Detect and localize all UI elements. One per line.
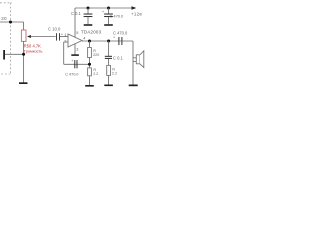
svg-text:C 470.0: C 470.0: [65, 71, 79, 76]
svg-text:5: 5: [76, 31, 78, 35]
svg-text:2.2: 2.2: [112, 72, 117, 76]
svg-text:R: R: [112, 67, 115, 71]
svg-text:220: 220: [93, 53, 99, 57]
svg-text:+: +: [113, 36, 115, 40]
svg-text:+: +: [61, 33, 63, 37]
svg-text:3: 3: [76, 47, 78, 51]
svg-text:C 10.0: C 10.0: [48, 27, 61, 32]
svg-text:2: 2: [64, 39, 66, 43]
svg-text:C 0.1: C 0.1: [113, 56, 124, 61]
svg-text:C 470.0: C 470.0: [113, 30, 128, 35]
svg-text:+12в: +12в: [131, 11, 142, 16]
svg-text:+: +: [71, 59, 73, 63]
svg-text:Громкость: Громкость: [24, 49, 43, 54]
svg-text:+: +: [102, 10, 104, 14]
svg-text:C 470.0: C 470.0: [110, 13, 124, 18]
svg-text:1: 1: [64, 33, 66, 37]
svg-text:20: 20: [1, 16, 7, 21]
svg-text:TDA2003: TDA2003: [81, 30, 102, 35]
svg-text:2.2: 2.2: [93, 72, 98, 76]
svg-text:4: 4: [83, 36, 85, 40]
svg-text:C 0.1: C 0.1: [71, 11, 82, 16]
